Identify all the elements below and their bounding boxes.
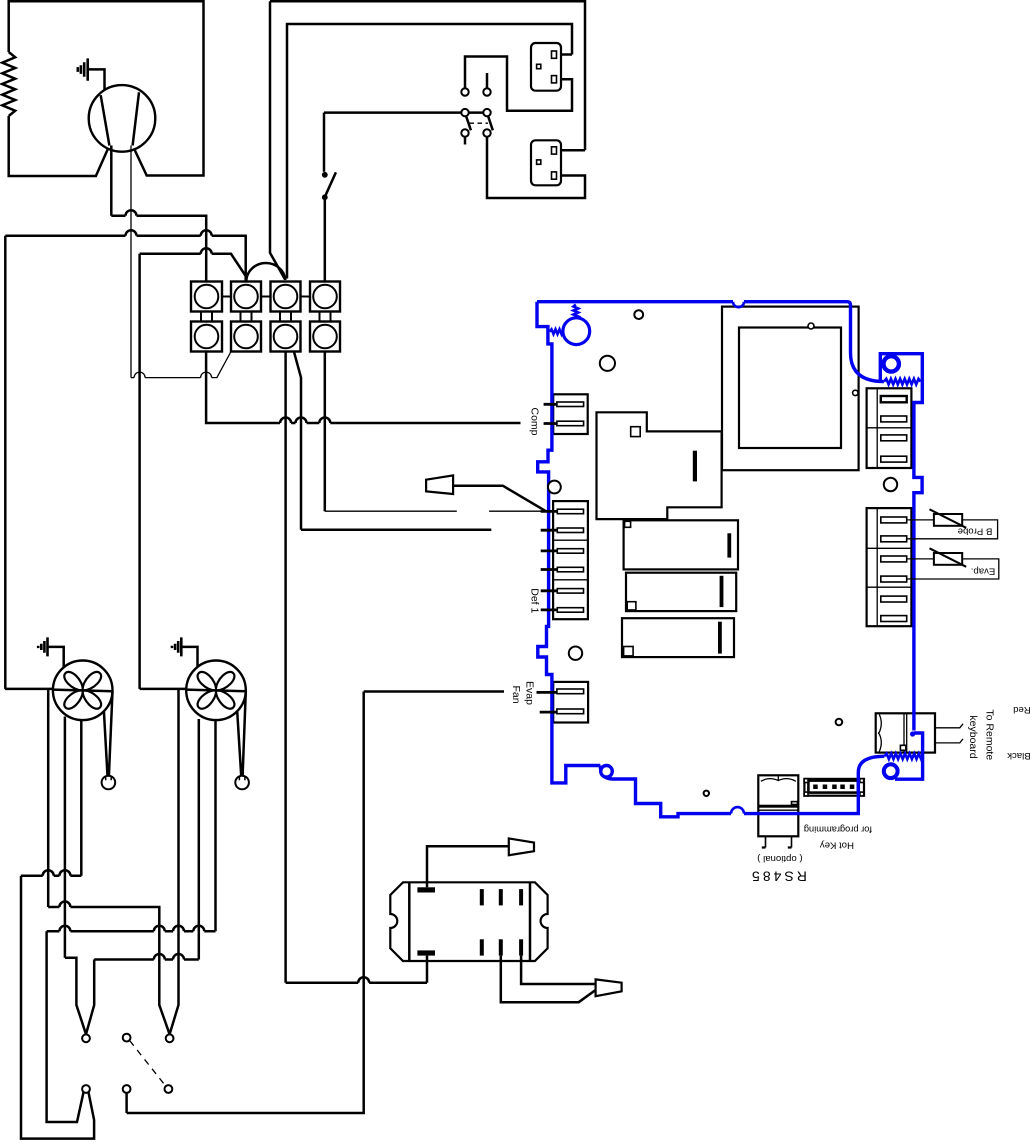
svg-text:Comp: Comp <box>529 407 541 435</box>
svg-text:Evap: Evap <box>524 681 536 705</box>
svg-text:Red: Red <box>1013 704 1031 715</box>
svg-text:RS485: RS485 <box>749 869 807 885</box>
svg-text:Def 1: Def 1 <box>529 588 541 613</box>
svg-text:Black: Black <box>1007 750 1031 761</box>
svg-text:Fan: Fan <box>510 685 522 703</box>
svg-text:To Remote: To Remote <box>984 709 996 760</box>
svg-text:( optional ): ( optional ) <box>757 853 802 864</box>
svg-text:for programming: for programming <box>804 825 872 835</box>
svg-text:Hot Key: Hot Key <box>820 840 854 851</box>
svg-text:B Probe: B Probe <box>958 526 993 537</box>
svg-text:keyboard: keyboard <box>967 715 979 758</box>
svg-text:Evap.: Evap. <box>971 565 996 576</box>
